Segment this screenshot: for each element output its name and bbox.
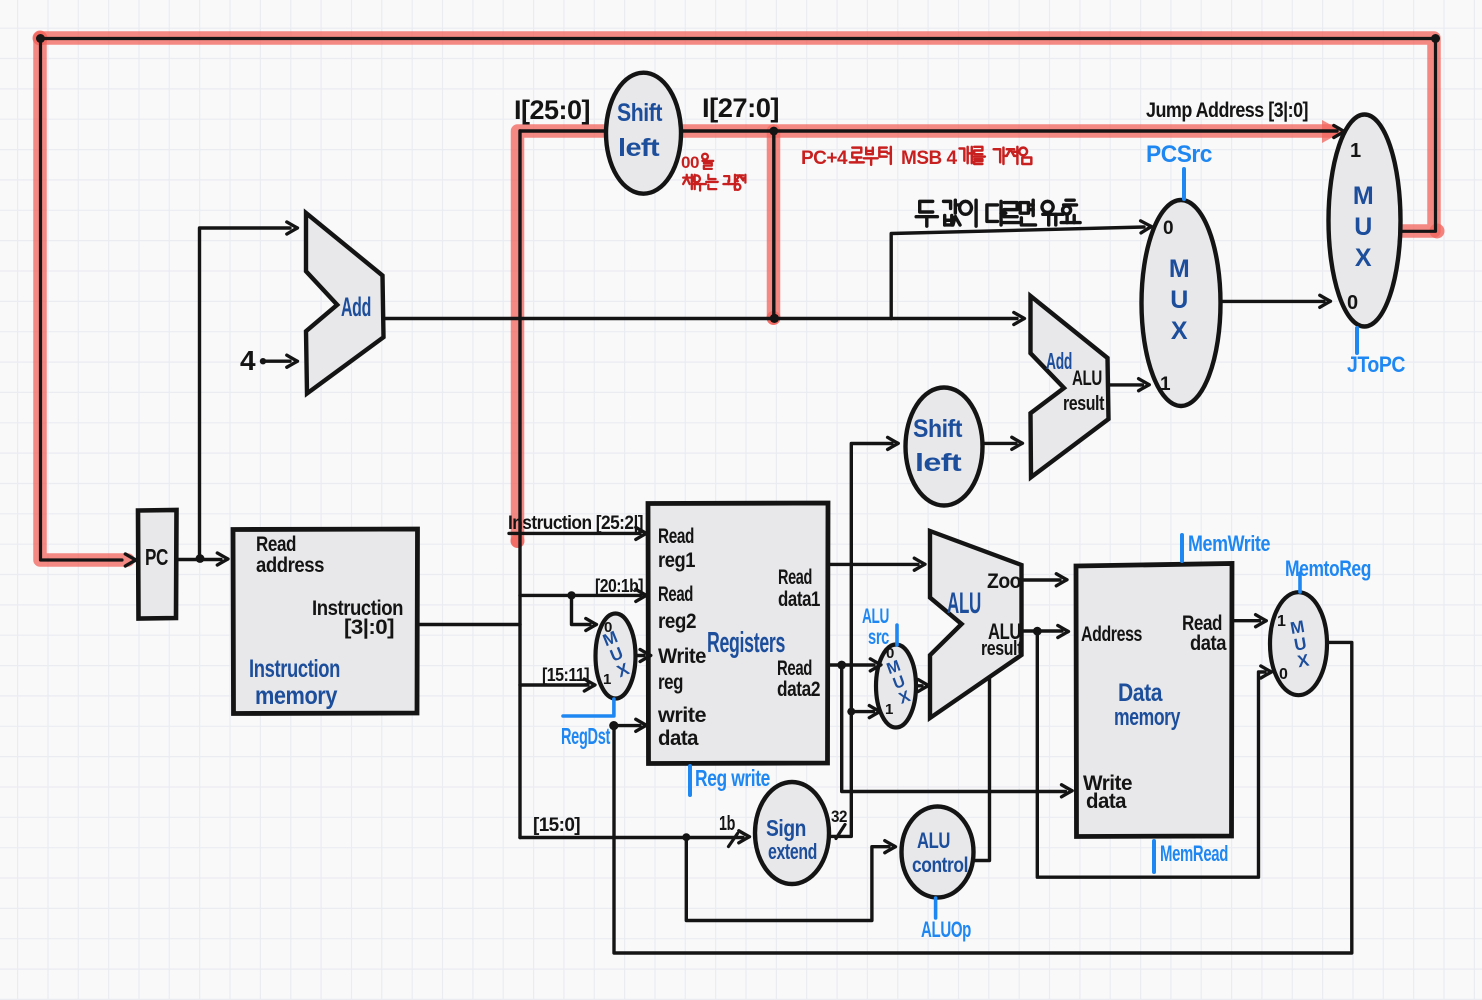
- svg-text:ALU: ALU: [862, 605, 889, 628]
- PCSrc mux ellipse: [1142, 200, 1221, 406]
- svg-text:ALU: ALU: [947, 587, 981, 620]
- svg-text:RegDst: RegDst: [561, 723, 611, 749]
- svg-text:1: 1: [603, 671, 611, 688]
- svg-text:Instruction [25:2|]: Instruction [25:2|]: [508, 513, 643, 534]
- svg-text:Zoo: Zoo: [987, 570, 1021, 593]
- wire: ALU result to Address and down to MemtoReg mux 0: [1022, 631, 1266, 877]
- adder Add (branch target): [1031, 296, 1109, 477]
- wire: instruction memory output: [418, 623, 521, 626]
- control label ALUOp: [934, 898, 938, 918]
- svg-text:[3|:0]: [3|:0]: [344, 616, 394, 639]
- control label Reg write: [688, 766, 692, 795]
- wire: Read data2 to ALUSrc mux 0 and down to Write data of memory: [828, 665, 1066, 792]
- red highlight: instruction I[25:0] vertical up to shift-left: [518, 131, 607, 541]
- svg-text:reg1: reg1: [658, 549, 696, 572]
- wire: PC out branch up to Add: [200, 228, 291, 559]
- wire: Read data1 to ALU: [828, 563, 918, 566]
- svg-text:Add: Add: [341, 292, 371, 322]
- bit-width slash 32: [836, 825, 845, 839]
- registers box: [648, 503, 828, 764]
- wire: Add output PC+4: [384, 317, 1018, 320]
- svg-text:MemWrite: MemWrite: [1188, 531, 1270, 556]
- adder Add (PC+4): [306, 213, 384, 394]
- svg-text:write: write: [657, 704, 706, 727]
- svg-text:PC: PC: [145, 544, 168, 570]
- svg-text:Read: Read: [658, 583, 693, 606]
- wire: jump address I[25:0]/I[27:0] horizontal: [522, 129, 1338, 132]
- svg-text:00: 00: [681, 153, 699, 172]
- sign extend ellipse: [755, 782, 829, 884]
- svg-text:Instruction: Instruction: [249, 655, 340, 683]
- wire: shift-left-2 out to branch adder: [983, 442, 1017, 445]
- svg-text:left: left: [915, 449, 963, 477]
- svg-text:Read: Read: [256, 533, 296, 556]
- wire: ALU Zero out: [1022, 578, 1061, 581]
- svg-text:MSB 4: MSB 4: [901, 148, 958, 169]
- wire: PC out to instruction memory: [177, 558, 222, 561]
- svg-text:ALU: ALU: [917, 828, 950, 853]
- wire: instruction vertical distribution bus: [518, 131, 521, 838]
- svg-text:M: M: [1353, 182, 1373, 210]
- svg-text:Read: Read: [777, 657, 812, 680]
- svg-text:Read: Read: [778, 566, 812, 589]
- MUX letters (MemtoReg mux): [1289, 617, 1312, 672]
- korean note red: 00-fill process line2: [683, 175, 745, 191]
- svg-text:0: 0: [1347, 292, 1358, 314]
- svg-text:Shift: Shift: [617, 99, 663, 127]
- wire: RegDst mux out to Write reg: [636, 654, 645, 657]
- svg-text:extend: extend: [768, 839, 817, 864]
- wire: constant 4 into Add: [263, 360, 290, 363]
- svg-text:Data: Data: [1118, 679, 1163, 707]
- wire: [15:11] to RegDst mux 1: [520, 683, 588, 686]
- svg-text:U: U: [1354, 213, 1372, 241]
- control label MemRead: [1152, 841, 1156, 872]
- svg-text:U: U: [1170, 286, 1188, 314]
- svg-text:Reg write: Reg write: [695, 765, 770, 791]
- wire: instruction [5:0] to ALU control: [686, 837, 889, 920]
- svg-text:src: src: [868, 626, 890, 649]
- svg-text:Shift: Shift: [913, 415, 963, 443]
- red highlight: MSB-4 drop from PC+4: [767, 131, 781, 318]
- svg-text:1: 1: [1160, 374, 1171, 395]
- svg-text:MemtoReg: MemtoReg: [1285, 556, 1371, 581]
- svg-text:data: data: [1086, 790, 1127, 813]
- svg-text:1: 1: [1350, 140, 1361, 162]
- svg-text:data: data: [658, 727, 699, 750]
- svg-text:[20:1b]: [20:1b]: [595, 576, 643, 596]
- ALU: [930, 531, 1022, 718]
- bit-width slash 16: [729, 834, 738, 847]
- svg-text:1: 1: [885, 701, 893, 718]
- svg-text:Read: Read: [658, 525, 694, 548]
- svg-text:memory: memory: [255, 682, 338, 710]
- svg-text:Write: Write: [658, 645, 706, 668]
- arrowheads: [125, 554, 136, 566]
- svg-text:Address: Address: [1081, 623, 1142, 646]
- wire: ALU control out to ALU: [974, 676, 990, 861]
- wire: branch adder ALU result to PCSrc mux 1: [1109, 383, 1143, 386]
- svg-text:Registers: Registers: [707, 627, 785, 659]
- svg-text:0: 0: [1163, 218, 1173, 239]
- wire: PC+4 up to PCSrc mux input 0: [891, 227, 1144, 319]
- jump mux ellipse: [1329, 115, 1401, 327]
- PC register box: [138, 510, 177, 619]
- wire: [15:0] to sign extend: [520, 836, 743, 839]
- control label JToPC: [1355, 328, 1359, 353]
- svg-text:X: X: [1171, 317, 1188, 345]
- ALU control ellipse: [902, 807, 974, 898]
- svg-text:[15:0]: [15:0]: [533, 815, 580, 836]
- wire: Instruction [25:21] to Read reg1: [509, 532, 640, 535]
- svg-text:result: result: [981, 638, 1023, 660]
- control label RegDst: [563, 699, 614, 716]
- svg-text:data: data: [1190, 632, 1227, 655]
- ALUSrc mux ellipse: [876, 645, 916, 728]
- svg-text:Add: Add: [1046, 348, 1072, 374]
- svg-text:control: control: [912, 854, 968, 877]
- MUX letters (RegDst mux): [600, 627, 633, 681]
- svg-text:M: M: [1169, 255, 1189, 283]
- instruction memory box: [233, 529, 418, 714]
- svg-text:1b: 1b: [719, 813, 735, 835]
- korean note: two values differ -> valid (black): [916, 200, 1080, 226]
- junction dots: [196, 554, 205, 563]
- svg-text:Jump Address [3|:0]: Jump Address [3|:0]: [1146, 99, 1308, 122]
- wire: memory Read data to MemtoReg mux 1: [1232, 619, 1260, 622]
- svg-text:I[25:0]: I[25:0]: [514, 95, 590, 125]
- svg-text:left: left: [618, 134, 660, 162]
- wire: ALUSrc mux out to ALU: [916, 684, 922, 687]
- svg-text:reg: reg: [658, 671, 683, 694]
- svg-text:1: 1: [1277, 613, 1286, 630]
- wire: jump mux output up right side: [1400, 39, 1436, 232]
- svg-text:32: 32: [831, 807, 847, 826]
- svg-text:data2: data2: [777, 678, 820, 701]
- svg-text:MemRead: MemRead: [1160, 841, 1228, 866]
- data memory box: [1076, 564, 1232, 837]
- shift left 2 ellipse (branch): [906, 388, 983, 506]
- red highlight: PC write-back loop (top + left + right verticals): [40, 38, 1434, 231]
- wire: sign extend out, up to shift-left-2 and ALUSrc mux 1: [829, 444, 892, 837]
- wire: MSB-4 vertical from jump wire to PC+4: [772, 131, 775, 318]
- wire: [20:16] to Read reg2 and RegDst mux 0: [520, 595, 640, 624]
- RegDst mux ellipse: [596, 614, 636, 699]
- svg-text:address: address: [256, 554, 324, 577]
- wire: write-back from MemtoReg mux to Write data: [614, 642, 1352, 953]
- svg-text:0: 0: [1279, 666, 1288, 683]
- svg-text:data1: data1: [778, 588, 821, 611]
- svg-text:JToPC: JToPC: [1347, 352, 1406, 377]
- control label MemWrite: [1180, 535, 1184, 561]
- svg-text:ALU: ALU: [1072, 367, 1102, 390]
- svg-text:4: 4: [240, 345, 256, 376]
- svg-text:result: result: [1063, 393, 1105, 415]
- svg-text:ALUOp: ALUOp: [921, 917, 971, 942]
- svg-text:reg2: reg2: [658, 610, 696, 633]
- svg-text:PC+4: PC+4: [801, 148, 848, 169]
- svg-text:X: X: [1355, 244, 1372, 272]
- wire: PCSrc mux out to jump mux 0: [1220, 300, 1324, 303]
- MemtoReg mux ellipse: [1270, 592, 1327, 695]
- red highlight: I[27:0] jump address wire into right MUX: [680, 124, 1332, 138]
- svg-text:memory: memory: [1114, 704, 1181, 731]
- wire: PC loop top/left (new PC value): [41, 39, 1436, 561]
- svg-text:Sign: Sign: [766, 815, 806, 841]
- svg-text:[15:11]: [15:11]: [542, 665, 589, 685]
- svg-text:I[27:0]: I[27:0]: [702, 93, 779, 123]
- MUX letters (ALUSrc mux): [885, 658, 914, 708]
- svg-text:PCSrc: PCSrc: [1146, 141, 1212, 168]
- shift left 2 ellipse (jump): [606, 73, 681, 194]
